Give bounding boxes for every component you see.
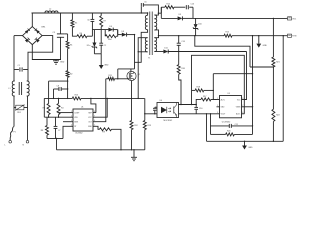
- wire upper sense line: [213, 73, 252, 75]
- ground arrow secondary: [244, 141, 246, 145]
- svg-text:REF: REF: [88, 112, 91, 114]
- svg-text:OUT: OUT: [88, 121, 92, 123]
- resistor R14 output snubber: [161, 6, 165, 8]
- svg-text:U4: U4: [160, 100, 162, 102]
- svg-text:C5: C5: [144, 2, 146, 4]
- wire choke left top lead: [13, 80, 16, 82]
- wire divider mid node: [273, 66, 274, 67]
- bridge rectifier BR1: [23, 27, 43, 45]
- capacitor C5 Y-cap primary-secondary: [140, 3, 142, 7]
- wire feedback node vertical: [213, 90, 214, 91]
- svg-text:3: 3: [217, 112, 218, 114]
- resistor R16 opto feed: [178, 52, 180, 65]
- svg-text:D11: D11: [164, 47, 167, 49]
- svg-text:6: 6: [242, 112, 243, 114]
- svg-text:R6: R6: [80, 33, 82, 35]
- wire R6 to snubber node: [87, 35, 92, 37]
- wire U1 pin4 to ground bus: [63, 126, 70, 138]
- wire aux clamp bottoms join: [94, 53, 101, 55]
- wire gate drive from U1 pin6: [96, 79, 106, 122]
- svg-text:R3: R3: [43, 108, 45, 110]
- wire drain vertical: [134, 35, 136, 69]
- svg-text:Q1: Q1: [138, 74, 141, 76]
- svg-text:R5: R5: [75, 23, 77, 25]
- svg-text:D9: D9: [179, 14, 181, 16]
- resistor R12 current sense: [130, 121, 133, 130]
- transformer T1 primary winding: [145, 15, 147, 29]
- wire secondary ground rail: [207, 140, 284, 142]
- ground arrow aux: [100, 54, 102, 65]
- resistor R7 snubber from bus: [100, 13, 102, 16]
- resistor R21 divider top: [273, 18, 274, 19]
- wire U1 pin1 to divider: [59, 112, 71, 114]
- svg-text:R16: R16: [181, 68, 184, 70]
- wire sense vertical right: [252, 36, 254, 135]
- svg-text:1: 1: [71, 111, 72, 113]
- resistor R4 divider lower: [58, 98, 60, 103]
- wire primary bottom to drain: [135, 30, 148, 63]
- choke core lines: [18, 82, 20, 95]
- wire divider bus to U1 pin2: [44, 116, 70, 118]
- wire vcc distribution line: [44, 97, 72, 99]
- wire choke right top lead: [27, 80, 28, 82]
- capacitor C3 bulk electrolytic: [60, 13, 62, 34]
- resistor R6a parallel with D6: [104, 30, 106, 37]
- IC U5 secondary regulator box: [220, 96, 242, 118]
- svg-text:L1: L1: [9, 88, 11, 90]
- svg-text:D6: D6: [110, 26, 112, 28]
- svg-text:5: 5: [94, 125, 95, 127]
- wire U1 pin3 left: [63, 121, 70, 123]
- wire R5 to clamp node: [72, 27, 77, 36]
- terminal VOUT1: [286, 17, 288, 19]
- svg-text:MOC8102: MOC8102: [164, 120, 173, 122]
- svg-text:R12: R12: [134, 125, 137, 127]
- svg-text:C8: C8: [57, 86, 59, 88]
- svg-text:COMP: COMP: [74, 112, 80, 114]
- svg-text:6: 6: [94, 120, 95, 122]
- wire output rail RTN (center tap): [159, 35, 225, 37]
- wire opto emitter line to U5: [179, 113, 217, 115]
- svg-text:7: 7: [94, 116, 95, 118]
- common-mode choke L1 left winding: [12, 81, 14, 96]
- wire opto collector to R17: [179, 99, 202, 104]
- wire timing parts to ground rail: [47, 138, 63, 140]
- svg-text:2: 2: [217, 105, 218, 107]
- ground primary main: [133, 150, 135, 158]
- wire left AC line to choke: [13, 67, 15, 70]
- svg-text:R11: R11: [109, 75, 112, 77]
- svg-text:C14: C14: [181, 41, 184, 43]
- wire U1 pin7 VCC riser: [96, 98, 107, 117]
- resistor R22 divider bottom: [272, 67, 274, 109]
- wire source down: [131, 80, 133, 120]
- resistor R6 clamp series: [77, 35, 87, 38]
- resistor R3 divider upper: [48, 81, 50, 103]
- diode D9 output rectifier: [161, 17, 177, 19]
- IC U5 pin stubs left: [217, 99, 220, 101]
- svg-text:R15: R15: [226, 32, 229, 34]
- wire aux winding bottom lead: [138, 51, 147, 53]
- wire secondary1 bottom / center tap: [154, 30, 158, 38]
- wire feedback sense line to U5 pin3R: [192, 55, 245, 114]
- wire R16 to optocoupler collector: [179, 74, 181, 104]
- svg-text:R18: R18: [197, 87, 200, 89]
- wire output snubber left node: [160, 7, 162, 18]
- wire right AC line X-cap to choke: [27, 70, 29, 82]
- IC U1 pin stubs left: [70, 112, 73, 114]
- optocoupler U4 phototransistor: [173, 107, 175, 114]
- transformer T1 secondary winding 2: [154, 38, 156, 52]
- zener D2a auxiliary clamp: [93, 30, 95, 43]
- svg-text:RT: RT: [74, 126, 76, 128]
- wire left AC line down: [13, 36, 15, 67]
- svg-text:L: L: [5, 145, 6, 147]
- svg-text:GND: GND: [248, 147, 253, 149]
- resistor R13 opto bias: [144, 114, 146, 121]
- wire snubber node: [92, 29, 108, 31]
- terminal RTN: [286, 35, 288, 37]
- capacitor C1 X-cap across line: [14, 69, 19, 71]
- wire D8 to drain node: [127, 34, 135, 36]
- wire AC line rail top (DC bus): [32, 12, 148, 14]
- diode D11 second output rectifier: [154, 51, 163, 53]
- capacitor C2 auxiliary: [100, 27, 102, 43]
- svg-text:R22: R22: [276, 115, 279, 117]
- transformer T1 core: [149, 12, 151, 56]
- resistor R5 startup from bus: [71, 13, 73, 20]
- svg-text:UC3842: UC3842: [75, 133, 83, 135]
- capacitor C14 second output filter: [178, 51, 179, 52]
- svg-text:ACTL: ACTL: [236, 113, 240, 116]
- wire D6 to parallel resistor: [113, 29, 118, 31]
- wire second output to U5 VCC pin: [245, 52, 247, 100]
- wire opto anode stub: [155, 106, 157, 108]
- svg-text:U5: U5: [228, 93, 230, 95]
- resistor R18 feedback upper: [192, 89, 196, 91]
- svg-text:R17: R17: [203, 96, 206, 98]
- wire U1 pin8 VREF jog to vcc line: [91, 98, 96, 112]
- svg-text:C10: C10: [199, 108, 202, 110]
- svg-text:U1: U1: [81, 107, 83, 109]
- wire U1 pin5 ground path: [96, 126, 100, 129]
- svg-text:C13: C13: [191, 3, 194, 5]
- wire output rtn to secondary ground: [283, 35, 284, 36]
- capacitor C6 snubber from bus: [91, 13, 93, 19]
- optocoupler U4 box: [157, 103, 179, 118]
- svg-text:F1: F1: [14, 132, 16, 134]
- resistor R11 gate: [108, 77, 115, 80]
- svg-text:R14: R14: [167, 3, 170, 5]
- svg-text:C6: C6: [87, 20, 89, 22]
- svg-text:R4: R4: [61, 108, 63, 110]
- MOSFET Q1 switch: [127, 71, 136, 80]
- inductor L2 (DC bus filter): [45, 11, 58, 13]
- svg-text:GND: GND: [104, 65, 109, 67]
- wire clamp to blocking diode D8: [117, 30, 119, 35]
- wire bridge AC right routing: [28, 36, 53, 70]
- capacitor C10 opto collector: [196, 104, 197, 105]
- svg-text:C7: C7: [58, 130, 60, 132]
- fuse F1: [10, 127, 14, 138]
- svg-text:GND: GND: [263, 45, 268, 47]
- diode D8 blocking: [122, 33, 127, 37]
- svg-text:R21: R21: [276, 62, 279, 64]
- capacitor C13 output snubber: [174, 6, 185, 8]
- terminal J2 neutral: [26, 140, 29, 143]
- wire choke left bottom to varistor: [13, 95, 16, 97]
- optocoupler U4 LED: [161, 107, 167, 113]
- svg-text:3: 3: [71, 120, 72, 122]
- resistor R2 bleeder lower: [67, 49, 69, 71]
- svg-text:R8: R8: [41, 130, 43, 132]
- svg-text:R9: R9: [103, 132, 105, 134]
- svg-text:R20: R20: [227, 131, 230, 133]
- wire secondary1 top lead: [154, 13, 161, 15]
- capacitor C9 across opto LED: [154, 113, 155, 114]
- svg-text:4: 4: [71, 125, 72, 127]
- resistor R9 pin5: [100, 128, 112, 131]
- capacitor C8 across divider: [58, 87, 60, 91]
- svg-text:8: 8: [94, 111, 95, 113]
- svg-text:RV1: RV1: [17, 112, 21, 114]
- resistor R10 vcc series: [72, 97, 81, 100]
- resistor R8 timing: [46, 117, 48, 125]
- svg-text:D8: D8: [122, 31, 124, 33]
- wire gate-drain snubber loop: [117, 78, 118, 79]
- svg-text:ACTL: ACTL: [221, 98, 225, 101]
- wire bleeder tap to divider: [49, 80, 68, 82]
- wire feedback tap from return rail: [194, 35, 195, 36]
- wire U5 pin2R to sense vertical: [245, 106, 253, 108]
- wire output rail V1: [193, 17, 286, 19]
- wire emitter drop to secondary ground: [206, 113, 207, 114]
- wire bridge AC left to line input: [14, 35, 23, 37]
- wire comp network left leg: [210, 113, 211, 114]
- svg-text:8: 8: [242, 98, 243, 100]
- resistor R20 compensation: [226, 133, 235, 136]
- svg-text:R13: R13: [148, 125, 151, 127]
- capacitor C7 timing: [55, 117, 57, 126]
- capacitor C11 compensation: [211, 125, 230, 127]
- svg-text:VOUT: VOUT: [221, 114, 226, 116]
- svg-text:C2: C2: [104, 45, 106, 47]
- svg-text:C1: C1: [18, 65, 20, 67]
- wire bridge positive output to rail: [31, 13, 33, 27]
- resistor R1 bleeder upper: [64, 33, 68, 35]
- wire second output: [168, 51, 246, 53]
- svg-text:UC39432: UC39432: [222, 122, 231, 124]
- svg-text:R1: R1: [70, 45, 72, 47]
- wire vcc line to divider: [43, 98, 45, 117]
- zener D10 output clamp: [195, 18, 197, 24]
- wire bleeder chain to vcc node: [67, 77, 69, 98]
- svg-text:R2: R2: [70, 74, 72, 76]
- varistor RV1 across line: [14, 107, 16, 109]
- wire drain top stub: [130, 70, 132, 72]
- wire primary ground rail: [57, 149, 145, 151]
- svg-text:RTN: RTN: [292, 36, 297, 38]
- wire divider leg to collector node: [191, 90, 193, 104]
- transformer T1 secondary winding 1: [154, 15, 156, 30]
- svg-text:C11: C11: [235, 124, 238, 126]
- IC U5 pin stubs right: [242, 99, 245, 101]
- svg-text:7: 7: [242, 105, 243, 107]
- ground primary GND near bridge: [55, 60, 57, 61]
- ground arrow output common: [258, 35, 259, 36]
- wire output node vertical: [192, 7, 194, 18]
- wire choke right bottom down: [26, 95, 29, 97]
- wire vcc line down to opto: [145, 98, 157, 113]
- terminal J1 line: [9, 138, 11, 141]
- wire bridge negative output: [32, 45, 61, 60]
- common-mode choke L1 right winding: [27, 81, 29, 96]
- wire aux winding top to vcc line: [138, 38, 147, 99]
- resistor R15 in return rail: [224, 34, 232, 37]
- IC U1 pin stubs right: [93, 112, 96, 114]
- svg-text:2: 2: [71, 116, 72, 118]
- svg-text:1: 1: [217, 98, 218, 100]
- svg-text:R10: R10: [75, 94, 78, 96]
- resistor R17 to U5 input: [201, 98, 211, 101]
- transformer T1 auxiliary winding: [145, 38, 147, 52]
- IC U1 PWM controller box: [73, 109, 93, 131]
- svg-text:GND: GND: [60, 61, 65, 63]
- svg-text:C3: C3: [53, 32, 55, 34]
- svg-text:D10: D10: [198, 24, 201, 26]
- svg-text:R7: R7: [104, 21, 106, 23]
- diode D6 clamp: [108, 28, 113, 32]
